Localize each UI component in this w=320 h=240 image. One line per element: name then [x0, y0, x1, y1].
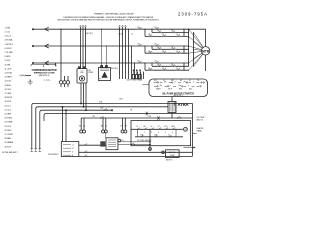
pilot light pair 1	[80, 118, 86, 133]
contact slashes	[139, 27, 181, 70]
svg-text:13. TAPS: 13. TAPS	[5, 76, 13, 79]
contact on relay line	[131, 143, 135, 145]
small labels on bundle	[99, 99, 132, 112]
rung 2 drop	[149, 129, 152, 151]
TB1 output line 1	[79, 144, 106, 146]
relay box bottom left	[106, 138, 118, 150]
svg-text:2S: 2S	[162, 68, 164, 70]
compressor text block	[32, 69, 57, 77]
CT2 group verticals	[120, 27, 126, 72]
svg-text:1CR: 1CR	[154, 80, 157, 82]
svg-text:26. DISC: 26. DISC	[5, 130, 13, 132]
contact dots	[138, 29, 181, 71]
network junction dots	[144, 29, 189, 71]
contact labels	[138, 26, 179, 70]
svg-text:4. FU 30A: 4. FU 30A	[5, 39, 13, 42]
svg-text:STOP: STOP	[168, 89, 172, 91]
svg-text:OL: OL	[176, 34, 178, 36]
rung 1 contact dots	[137, 128, 175, 131]
arrow on bus L3	[45, 61, 49, 65]
svg-text:11. OIL P: 11. OIL P	[5, 68, 13, 70]
contact network phase rows	[145, 29, 184, 70]
svg-text:1B: 1B	[155, 44, 157, 46]
terminal labels	[44, 80, 51, 82]
svg-text:21. OL-1: 21. OL-1	[5, 109, 12, 111]
svg-text:L1: L1	[72, 144, 74, 146]
terminal comb dots	[119, 72, 144, 73]
note under bottom box	[166, 160, 173, 162]
svg-text:2S: 2S	[162, 51, 164, 53]
svg-text:NOTES: SEE SHT 2: NOTES: SEE SHT 2	[2, 152, 18, 154]
svg-text:20. LT-1: 20. LT-1	[5, 105, 11, 107]
ladder right rail	[192, 103, 196, 156]
svg-text:1B: 1B	[155, 27, 157, 29]
fuse tap vertical from L1	[61, 29, 68, 80]
TB1 row labels	[72, 144, 74, 157]
pot R1	[20, 75, 32, 77]
CT2 primary bumps	[119, 26, 127, 27]
svg-text:(NOTE 7): (NOTE 7)	[166, 160, 173, 162]
svg-text:N: N	[72, 155, 73, 157]
relay aux circle	[118, 139, 121, 142]
svg-text:9. 115V: 9. 115V	[5, 60, 12, 62]
drawing number 2309-795A	[178, 11, 208, 16]
pilot pair 3 labels	[120, 125, 128, 127]
control bundle corners	[32, 103, 193, 148]
pilot light pair 3	[121, 118, 127, 133]
connector blob	[100, 141, 105, 146]
rung 118 contact	[157, 116, 159, 120]
svg-text:(SEE NOTE 3): (SEE NOTE 3)	[39, 75, 50, 77]
rung 1 under labels	[137, 132, 173, 134]
rung 118 left contact	[100, 116, 104, 118]
coil on bottom rail	[162, 151, 165, 154]
svg-text:24. TSTAT: 24. TSTAT	[5, 121, 14, 124]
svg-text:1B: 1B	[155, 61, 157, 63]
arrow on bus L1	[45, 27, 49, 31]
feeder wires to power panel	[129, 29, 135, 72]
pilot pair 2 labels	[101, 125, 107, 127]
svg-text:15. AUX: 15. AUX	[5, 84, 12, 87]
svg-text:PT: PT	[100, 79, 102, 81]
svg-text:(NOTE 2): (NOTE 2)	[86, 33, 93, 35]
terminal comb	[120, 72, 144, 79]
pilot pair 1 labels	[79, 125, 85, 127]
rung 1 labels	[137, 125, 175, 128]
note box interior symbols row 2	[154, 85, 201, 87]
svg-text:2S: 2S	[162, 34, 164, 36]
CT1 primary bumps	[80, 26, 87, 27]
svg-text:OL: OL	[176, 51, 178, 53]
svg-text:COMPRESSOR MOTOR STARTER WIRIN: COMPRESSOR MOTOR STARTER WIRING DIAGRAM …	[63, 16, 154, 19]
svg-text:T1 T2 T3: T1 T2 T3	[44, 80, 51, 82]
rung 118	[81, 117, 192, 119]
transformer box T1	[99, 29, 111, 80]
svg-text:22. RES: 22. RES	[5, 114, 12, 116]
title line 1	[94, 13, 134, 16]
terminal box TB1	[61, 142, 79, 157]
starter panel box	[131, 121, 191, 146]
svg-text:2309-795A: 2309-795A	[178, 11, 208, 16]
ladder bottom rail 1	[79, 151, 193, 153]
svg-text:RUN: RUN	[179, 89, 182, 91]
note box rounded	[149, 79, 208, 97]
oil pump starter box	[77, 67, 87, 83]
motor M1	[201, 29, 209, 71]
svg-text:HP: HP	[180, 80, 182, 82]
svg-text:27. CPWR: 27. CPWR	[5, 134, 14, 136]
bus L2	[32, 45, 188, 46]
contact on bundle line 4	[146, 112, 148, 116]
rung 1 contacts	[138, 128, 176, 130]
svg-text:2. CT-1: 2. CT-1	[5, 32, 11, 34]
CT labels	[118, 33, 134, 36]
svg-text:28. BELL: 28. BELL	[5, 138, 12, 140]
svg-text:UNIT MOUNTED CONTROL PANEL AND: UNIT MOUNTED CONTROL PANEL AND FACTORY S…	[57, 19, 159, 22]
note 2 smudge	[86, 33, 93, 35]
svg-text:1S: 1S	[171, 64, 173, 66]
svg-text:1S: 1S	[171, 30, 173, 32]
svg-text:MTR: MTR	[202, 49, 210, 53]
line 3 terminal	[111, 110, 112, 111]
svg-text:7. OL RES: 7. OL RES	[5, 52, 14, 54]
bus L1	[32, 29, 205, 30]
svg-text:23. HTR-1: 23. HTR-1	[5, 118, 13, 120]
ladder bottom rail 2	[79, 155, 193, 157]
winding box (auto transformer)	[168, 97, 176, 119]
stub from bus3 to terminal box	[55, 63, 57, 66]
fuse FU2	[63, 81, 66, 84]
svg-text:OL: OL	[176, 68, 178, 70]
svg-text:OL: OL	[163, 80, 165, 82]
svg-text:2S: 2S	[105, 125, 107, 127]
oil pump label	[88, 70, 94, 74]
rung 118 label	[148, 116, 152, 118]
svg-text:30. NT 9: 30. NT 9	[5, 146, 11, 148]
left notes column	[2, 26, 18, 153]
ground symbol	[28, 80, 33, 85]
svg-text:PANEL: PANEL	[197, 130, 202, 133]
comb label	[127, 79, 143, 82]
svg-text:1S: 1S	[171, 47, 173, 49]
svg-text:16. TB-1: 16. TB-1	[5, 89, 11, 91]
tick on bundle line 1	[174, 103, 175, 106]
fuse FU3	[66, 81, 69, 84]
svg-text:OL: OL	[120, 125, 122, 127]
relay output lines	[118, 141, 151, 145]
title line 3	[57, 19, 159, 22]
arrow on bus L2	[45, 44, 49, 48]
svg-text:10. PNL: 10. PNL	[5, 64, 11, 66]
svg-text:L2: L2	[72, 148, 74, 150]
svg-text:5. NOTE 3: 5. NOTE 3	[5, 44, 13, 46]
CT1 group verticals	[81, 27, 86, 69]
svg-text:14. 1CR: 14. 1CR	[5, 81, 12, 83]
svg-text:TB: TB	[197, 80, 199, 82]
rung 2 labels	[140, 134, 170, 136]
svg-text:LP: LP	[151, 126, 153, 128]
svg-text:OT: OT	[158, 126, 160, 128]
svg-text:OL: OL	[137, 126, 139, 128]
svg-text:ATRA: ATRA	[178, 102, 189, 107]
phase3 cluster label	[0, 0, 1, 1]
note box interior labels	[154, 80, 199, 91]
svg-text:OL: OL	[168, 134, 170, 136]
rung 118 right contact	[177, 116, 181, 118]
svg-text:(SEE NOTE 5): (SEE NOTE 5)	[173, 95, 183, 97]
note box inlet stub	[143, 84, 150, 86]
pilot light pair 2	[102, 118, 108, 133]
TB1 line contacts	[85, 144, 88, 157]
note box title	[162, 92, 194, 97]
svg-text:6. 1M-2S: 6. 1M-2S	[5, 48, 13, 50]
rung 118 left label	[93, 116, 96, 118]
svg-text:(NOTE 4): (NOTE 4)	[111, 68, 118, 70]
bus L3	[32, 62, 188, 63]
ATRA label	[178, 102, 189, 107]
rung 2 contact dots	[141, 135, 172, 138]
title line 2	[63, 16, 154, 19]
rail 147.5 stub with arrow	[184, 147, 196, 149]
svg-text:HP: HP	[144, 126, 146, 128]
CT lead cluster	[0, 0, 1, 1]
svg-text:18. INTLK: 18. INTLK	[5, 97, 13, 99]
contact on bundle line 3	[104, 108, 108, 110]
svg-text:3. L1-L3: 3. L1-L3	[5, 36, 11, 38]
TB1 contact dots	[84, 145, 87, 157]
rung 2 contacts	[141, 135, 172, 137]
svg-text:1S: 1S	[83, 125, 85, 127]
note 4 smudge	[111, 68, 118, 70]
phase3 CT cluster	[132, 70, 141, 79]
svg-text:OIL PUMP MOTOR STARTER: OIL PUMP MOTOR STARTER	[162, 92, 194, 95]
right outside text	[197, 117, 206, 133]
ladder rung 1	[131, 128, 183, 130]
svg-text:HEATER: HEATER	[197, 127, 204, 130]
relay output label	[121, 140, 124, 142]
svg-text:2CR: 2CR	[171, 80, 174, 82]
pilot feeds down	[105, 132, 107, 138]
in-box text	[137, 139, 152, 142]
fuse leads	[61, 84, 68, 87]
svg-text:29. SPARE: 29. SPARE	[5, 141, 14, 144]
svg-text:19. NT 8: 19. NT 8	[5, 101, 11, 103]
termination label	[48, 154, 59, 156]
svg-text:HERMETIC CENTRIFUGAL LIQUID CH: HERMETIC CENTRIFUGAL LIQUID CHILLER	[94, 13, 134, 16]
svg-text:LP: LP	[189, 80, 191, 82]
svg-text:AND OIL: AND OIL	[197, 118, 204, 121]
rung 2 inside box	[135, 129, 183, 137]
note box interior symbols row 1	[154, 81, 205, 83]
svg-text:115V SUPPLY: 115V SUPPLY	[48, 154, 59, 156]
motor lead fan	[189, 29, 204, 70]
bus junction dots	[55, 29, 135, 77]
bundle terminations	[31, 149, 42, 152]
right collector rails	[184, 29, 194, 71]
svg-text:17. GND: 17. GND	[5, 93, 12, 95]
coil 1CR	[184, 127, 188, 131]
svg-text:TB: TB	[130, 110, 132, 112]
TB1 feed drops	[62, 106, 67, 141]
bottom box with text	[166, 150, 180, 158]
svg-text:12. FU BL: 12. FU BL	[5, 73, 13, 75]
pump lead verticals	[80, 83, 86, 111]
fan dots	[188, 29, 194, 71]
svg-text:25. NT 4: 25. NT 4	[5, 126, 11, 128]
svg-text:PUMP: PUMP	[170, 155, 175, 157]
svg-text:1. TRA: 1. TRA	[5, 26, 11, 29]
svg-text:8. GRD: 8. GRD	[5, 56, 11, 58]
fuse FU1	[59, 81, 62, 84]
